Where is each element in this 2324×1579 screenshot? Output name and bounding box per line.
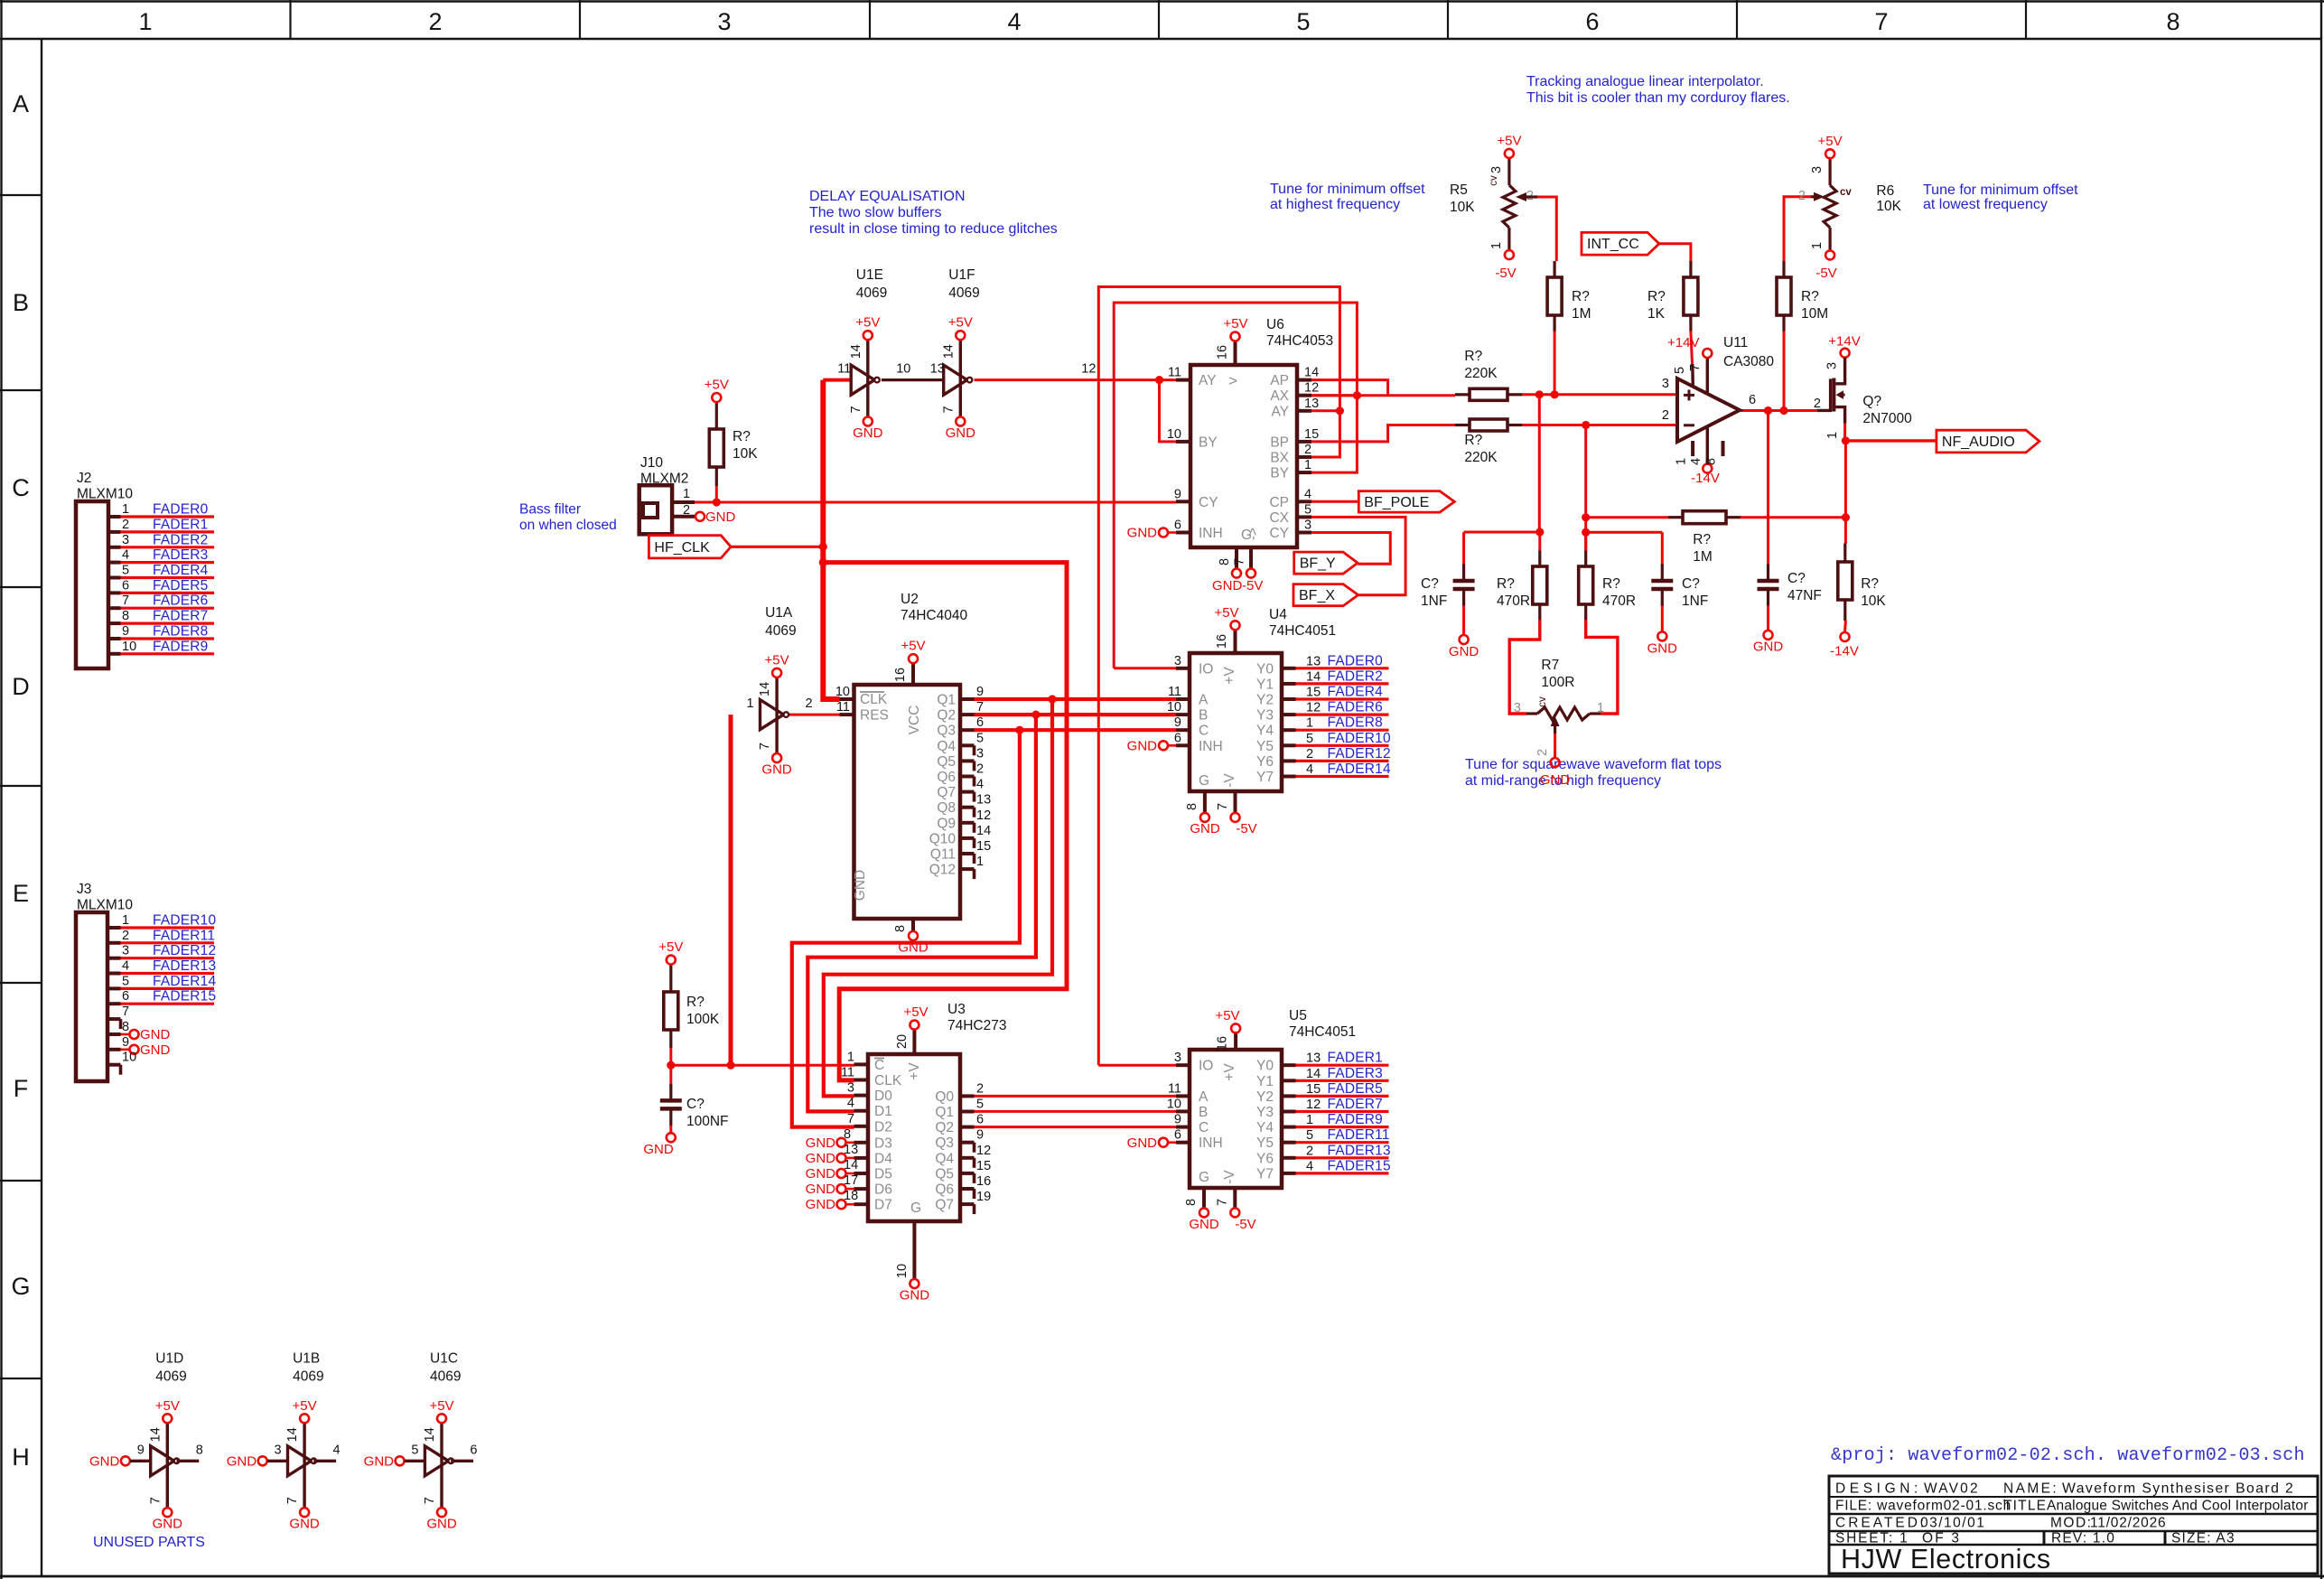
wire U2 Q2 to U4 B and U3 D1: [807, 711, 1176, 1112]
svg-text:U1E: U1E: [856, 267, 883, 283]
resistor R? 100K: [658, 939, 720, 1065]
svg-text:FADER8: FADER8: [153, 624, 209, 640]
svg-text:GND: GND: [643, 1142, 674, 1157]
svg-text:10: 10: [1167, 700, 1181, 715]
svg-text:2: 2: [1304, 443, 1311, 457]
svg-text:+14V: +14V: [1667, 335, 1699, 350]
svg-text:3: 3: [122, 944, 129, 958]
svg-text:Y2: Y2: [1256, 693, 1274, 708]
svg-text:4: 4: [1304, 487, 1311, 501]
svg-text:15: 15: [976, 1159, 991, 1173]
svg-text:8: 8: [1184, 1199, 1199, 1206]
svg-text:-5V: -5V: [1815, 266, 1836, 281]
svg-text:9: 9: [137, 1443, 145, 1457]
svg-text:AY: AY: [1271, 404, 1289, 419]
svg-text:Waveform Synthesiser Board 2: Waveform Synthesiser Board 2: [2062, 1481, 2294, 1497]
svg-text:2: 2: [1306, 747, 1313, 761]
svg-text:16: 16: [976, 1174, 991, 1189]
svg-text:FADER10: FADER10: [1328, 731, 1391, 746]
wire R470R-1 to R7 pin3: [1509, 619, 1540, 714]
svg-text:INH: INH: [1199, 526, 1223, 541]
connector J2 MLXM10 with FADER0-FADER9 nets: [76, 471, 214, 668]
wire U11 output to Q gate: [1740, 406, 1818, 415]
svg-text:GND: GND: [1753, 640, 1784, 655]
svg-text:Q3: Q3: [935, 1135, 954, 1151]
svg-text:-14V: -14V: [1830, 644, 1859, 659]
svg-text:UNUSED PARTS: UNUSED PARTS: [93, 1535, 205, 1550]
svg-text:7: 7: [758, 743, 772, 750]
svg-text:GND: GND: [806, 1166, 836, 1182]
svg-text:Y3: Y3: [1256, 1105, 1274, 1120]
wire U2 Q3 to U4 C and U3 D2: [792, 726, 1176, 1127]
wire R/C junction to U3 C-bar pin1: [667, 1061, 854, 1070]
svg-text:1: 1: [1810, 242, 1825, 249]
wire U6 CX to BF_X: [1311, 517, 1405, 594]
svg-text:C: C: [1199, 724, 1209, 739]
svg-text:Y4: Y4: [1256, 1120, 1274, 1135]
svg-text:Y0: Y0: [1256, 661, 1274, 677]
wire filter row to R470R-2 and C1NF-2: [1586, 532, 1663, 565]
svg-text:1: 1: [122, 913, 129, 928]
svg-text:INT_CC: INT_CC: [1587, 237, 1639, 252]
wire +input junction down to filter: [1538, 395, 1541, 533]
capacitor C? 100NF: [643, 1084, 728, 1157]
svg-text:Y0: Y0: [1256, 1059, 1274, 1074]
svg-text:Q2: Q2: [935, 1120, 954, 1135]
svg-text:Q1: Q1: [937, 693, 956, 708]
svg-text:FADER2: FADER2: [153, 532, 209, 547]
svg-text:FADER15: FADER15: [153, 989, 216, 1004]
svg-text:Y5: Y5: [1256, 1135, 1274, 1151]
svg-text:12: 12: [1081, 362, 1096, 377]
net flag BF_POLE: [1358, 491, 1454, 513]
svg-text:FADER10: FADER10: [153, 913, 216, 929]
wire U1A output to U2 RES: [789, 714, 840, 716]
potentiometer R5 10K: [1450, 133, 1537, 281]
svg-text:>: >: [1228, 372, 1237, 389]
svg-text:+5V: +5V: [948, 315, 973, 331]
svg-text:74HC4040: 74HC4040: [901, 608, 967, 623]
svg-text:13: 13: [1306, 1051, 1321, 1066]
svg-text:10K: 10K: [1450, 200, 1475, 215]
svg-text:+5V: +5V: [293, 1398, 317, 1414]
svg-text:FADER0: FADER0: [1328, 653, 1384, 668]
svg-text:GND: GND: [1212, 578, 1243, 593]
svg-text:6: 6: [976, 1113, 984, 1127]
wire C 47NF to GND: [1767, 604, 1769, 631]
svg-text:100R: 100R: [1541, 675, 1574, 690]
wire U6 AP/AX to R 220K (+input): [1311, 380, 1455, 396]
svg-text:9: 9: [122, 1035, 129, 1050]
svg-text:4069: 4069: [948, 285, 979, 301]
svg-text:6: 6: [122, 578, 129, 593]
svg-text:4: 4: [1689, 458, 1703, 465]
svg-text:7: 7: [1233, 558, 1247, 565]
svg-text:Q2: Q2: [937, 708, 956, 724]
connector J3 MLXM10 with FADER10-FADER15 nets and GND pins: [76, 882, 216, 1081]
svg-text:BF_Y: BF_Y: [1300, 556, 1336, 572]
svg-text:10: 10: [896, 362, 910, 377]
svg-text:7: 7: [148, 1497, 163, 1504]
svg-text:D0: D0: [874, 1088, 892, 1104]
svg-text:FADER12: FADER12: [1328, 746, 1391, 761]
svg-text:4069: 4069: [430, 1369, 461, 1384]
svg-text:IO: IO: [1199, 1059, 1213, 1074]
svg-text:Y1: Y1: [1256, 1074, 1274, 1089]
svg-text:DESIGN:: DESIGN:: [1835, 1481, 1922, 1497]
svg-text:5: 5: [976, 731, 984, 745]
svg-text:Q12: Q12: [929, 863, 956, 878]
resistor R? 1K: [1647, 261, 1698, 332]
svg-text:INH: INH: [1199, 1135, 1223, 1151]
svg-text:FADER11: FADER11: [1328, 1127, 1390, 1143]
svg-text:CX: CX: [1269, 510, 1289, 526]
svg-text:+5V: +5V: [155, 1398, 180, 1414]
svg-text:17: 17: [844, 1173, 858, 1188]
svg-text:WAV02: WAV02: [1924, 1481, 1980, 1497]
svg-text:FADER11: FADER11: [153, 928, 215, 943]
svg-text:14: 14: [1306, 1067, 1321, 1081]
svg-text:D6: D6: [874, 1182, 892, 1198]
svg-text:NAME:: NAME:: [2003, 1481, 2058, 1497]
svg-text:AX: AX: [1270, 388, 1289, 404]
wire J10.1 / R pull-up to U6 CY pin9: [695, 498, 1176, 506]
svg-text:9: 9: [1174, 1113, 1181, 1127]
svg-text:C?: C?: [1421, 576, 1439, 592]
svg-text:+5V: +5V: [765, 652, 789, 668]
svg-text:7: 7: [1688, 364, 1703, 371]
svg-text:14: 14: [423, 1427, 437, 1442]
svg-text:4069: 4069: [293, 1369, 323, 1384]
svg-text:3: 3: [976, 746, 984, 761]
svg-text:FADER3: FADER3: [153, 547, 209, 563]
svg-text:11: 11: [836, 700, 850, 715]
svg-text:FADER1: FADER1: [1328, 1051, 1384, 1066]
svg-text:+5V: +5V: [1223, 316, 1247, 332]
svg-text:12: 12: [1304, 381, 1319, 396]
svg-text:8: 8: [1218, 558, 1232, 565]
svg-text:GND: GND: [806, 1135, 836, 1151]
svg-text:AP: AP: [1270, 373, 1289, 388]
svg-text:13: 13: [844, 1143, 858, 1157]
svg-text:CLK: CLK: [874, 1073, 902, 1088]
svg-text:10M: 10M: [1801, 306, 1828, 322]
svg-text:BF_POLE: BF_POLE: [1364, 495, 1429, 510]
svg-text:14: 14: [148, 1427, 163, 1442]
net flag INT_CC: [1582, 232, 1659, 255]
svg-text:8: 8: [893, 925, 908, 932]
svg-text:7: 7: [941, 406, 956, 413]
svg-text:1: 1: [1306, 1113, 1313, 1127]
svg-text:4069: 4069: [856, 285, 887, 301]
svg-text:14: 14: [849, 344, 863, 359]
svg-text:11: 11: [1168, 685, 1181, 699]
svg-text:D2: D2: [874, 1119, 892, 1135]
wire R 1M to +input row: [1554, 332, 1556, 395]
svg-text:FADER5: FADER5: [1328, 1081, 1384, 1097]
svg-text:4: 4: [847, 1097, 854, 1111]
comment unused parts: [93, 1535, 205, 1550]
svg-text:J2: J2: [77, 471, 91, 486]
svg-text:Y6: Y6: [1256, 1151, 1274, 1166]
svg-text:U2: U2: [901, 592, 919, 607]
svg-text:D7: D7: [874, 1198, 892, 1213]
resistor R? 1M vertical: [1547, 261, 1591, 332]
wire -input row R220K to U11 pin2: [1522, 421, 1677, 429]
svg-text:1: 1: [847, 1050, 854, 1064]
svg-text:3: 3: [1174, 1051, 1181, 1065]
svg-text:U5: U5: [1289, 1008, 1307, 1023]
svg-text:GND: GND: [806, 1182, 836, 1197]
svg-text:74HC4053: 74HC4053: [1266, 333, 1333, 349]
svg-text:FADER6: FADER6: [1328, 700, 1384, 715]
unused inverter U1B 4069: [227, 1350, 341, 1531]
svg-text:11: 11: [841, 1066, 854, 1080]
svg-text:GND: GND: [853, 425, 883, 441]
svg-text:GND: GND: [1127, 1135, 1158, 1151]
svg-text:MLXM10: MLXM10: [77, 487, 133, 502]
svg-text:GND: GND: [140, 1027, 171, 1042]
svg-text:12: 12: [1306, 1098, 1321, 1112]
svg-text:6: 6: [976, 715, 984, 730]
svg-text:Q0: Q0: [935, 1089, 954, 1105]
svg-text:U6: U6: [1266, 317, 1284, 332]
analog mux U5 74HC4051: [1127, 1008, 1391, 1232]
svg-text:FADER0: FADER0: [153, 502, 209, 518]
svg-text:C: C: [1199, 1120, 1209, 1135]
svg-text:3: 3: [1514, 701, 1521, 715]
svg-text:GND: GND: [153, 1517, 183, 1532]
svg-text:D3: D3: [874, 1135, 892, 1151]
svg-text:10: 10: [122, 1051, 136, 1065]
svg-text:Q10: Q10: [929, 831, 957, 846]
svg-text:GND: GND: [946, 425, 976, 441]
svg-text:F: F: [14, 1075, 29, 1102]
svg-text:2: 2: [428, 8, 442, 35]
svg-text:Bass filter: Bass filter: [519, 502, 581, 518]
wire U1E output to U1F input: [882, 378, 944, 381]
resistor R? 470R left: [1497, 550, 1547, 620]
svg-text:1: 1: [1306, 716, 1313, 731]
svg-text:B: B: [1199, 1105, 1208, 1120]
wire R 1K to U11 pin5: [1691, 332, 1693, 365]
wire U3 Q1 to U5 B: [975, 1110, 1177, 1113]
wire U1E input from HF_CLK column: [823, 378, 851, 382]
svg-text:7: 7: [847, 1112, 854, 1126]
comment tune lowest frequency: [1923, 182, 2078, 212]
svg-text:Q1: Q1: [935, 1105, 954, 1120]
svg-text:+V: +V: [907, 1062, 922, 1080]
svg-text:7: 7: [1216, 803, 1230, 810]
svg-text:5: 5: [976, 1098, 984, 1112]
svg-text:8: 8: [2166, 8, 2179, 35]
net flag BF_Y: [1294, 552, 1358, 574]
comment tracking interpolator: [1526, 74, 1790, 106]
svg-text:11: 11: [837, 362, 851, 377]
svg-text:CY: CY: [1199, 495, 1218, 510]
svg-text:Analogue Switches And Cool Int: Analogue Switches And Cool Interpolator: [2047, 1499, 2309, 1514]
wire R5 wiper to R 1M: [1537, 197, 1556, 261]
svg-text:FADER3: FADER3: [1328, 1066, 1384, 1081]
title block: [1829, 1476, 2318, 1574]
svg-text:+5V: +5V: [1214, 605, 1238, 621]
comment tune squarewave: [1465, 757, 1722, 789]
svg-text:Y7: Y7: [1256, 770, 1274, 785]
svg-text:U1B: U1B: [293, 1350, 320, 1366]
svg-text:1: 1: [1825, 432, 1840, 439]
wire R 10K to -14V: [1843, 621, 1847, 632]
svg-text:2: 2: [122, 929, 129, 943]
svg-text:10: 10: [1167, 1097, 1181, 1111]
wire R7 wiper to GND: [1554, 733, 1556, 758]
svg-text:14: 14: [1306, 669, 1321, 684]
potentiometer R6 10K: [1798, 134, 1902, 281]
svg-text:1NF: 1NF: [1421, 593, 1447, 609]
svg-text:1: 1: [1489, 242, 1504, 249]
svg-text:8: 8: [122, 609, 129, 623]
svg-text:GND: GND: [1127, 526, 1158, 541]
svg-text:12: 12: [1306, 701, 1321, 715]
svg-text:FADER8: FADER8: [1328, 715, 1384, 731]
svg-text:G: G: [11, 1273, 30, 1300]
svg-text:+5V: +5V: [855, 315, 880, 331]
comment tune highest frequency: [1270, 182, 1425, 212]
svg-text:GND: GND: [853, 870, 868, 901]
svg-text:47NF: 47NF: [1787, 588, 1822, 603]
svg-text:MLXM2: MLXM2: [640, 472, 688, 487]
svg-text:4: 4: [1306, 1159, 1313, 1173]
svg-text:1: 1: [1597, 701, 1604, 715]
svg-text:4: 4: [333, 1443, 341, 1457]
wire R470R-2 to R7 pin1: [1586, 619, 1618, 714]
svg-text:Q5: Q5: [935, 1166, 954, 1182]
svg-text:R7: R7: [1541, 658, 1559, 673]
svg-text:8: 8: [196, 1443, 203, 1457]
svg-text:6: 6: [1174, 519, 1181, 533]
svg-text:D1: D1: [874, 1104, 892, 1119]
svg-text:74HC4051: 74HC4051: [1269, 623, 1336, 639]
svg-text:470R: 470R: [1497, 593, 1530, 609]
svg-text:15: 15: [1306, 686, 1321, 700]
svg-text:8: 8: [122, 1020, 129, 1034]
svg-text:74HC4051: 74HC4051: [1289, 1024, 1356, 1040]
svg-text:Tune for squarewave waveform f: Tune for squarewave waveform flat tops: [1465, 757, 1722, 772]
svg-text:+14V: +14V: [1828, 334, 1860, 350]
svg-text:+5V: +5V: [903, 1004, 928, 1020]
svg-text:at highest frequency: at highest frequency: [1270, 197, 1400, 212]
inverter U1E 4069: [837, 267, 910, 441]
svg-text:Q11: Q11: [930, 847, 956, 863]
svg-text:U1C: U1C: [430, 1350, 458, 1366]
svg-text:6: 6: [1585, 8, 1599, 35]
svg-text:SIZE: A3: SIZE: A3: [2171, 1531, 2235, 1546]
svg-text:9: 9: [1174, 487, 1181, 501]
svg-text:10: 10: [1167, 427, 1181, 442]
svg-text:G: G: [1199, 773, 1209, 789]
svg-text:12: 12: [976, 1144, 991, 1158]
svg-text:BF_X: BF_X: [1299, 588, 1335, 603]
svg-text:1: 1: [747, 696, 754, 711]
svg-text:1NF: 1NF: [1682, 593, 1708, 609]
svg-text:3: 3: [1174, 654, 1181, 668]
svg-text:7: 7: [122, 593, 129, 608]
svg-text:14: 14: [844, 1158, 858, 1173]
net flag NF_AUDIO: [1937, 430, 2039, 453]
svg-text:R?: R?: [686, 995, 705, 1010]
resistor R? 470R right: [1579, 550, 1636, 620]
svg-text:2: 2: [976, 1081, 984, 1096]
svg-text:7: 7: [423, 1497, 437, 1504]
svg-text:AY: AY: [1199, 373, 1217, 388]
svg-text:1: 1: [1675, 458, 1689, 465]
capacitor C? 47NF: [1753, 565, 1822, 655]
svg-text:4: 4: [1306, 762, 1313, 777]
svg-text:CLK: CLK: [860, 692, 888, 707]
svg-text:-V: -V: [1222, 1170, 1237, 1184]
svg-text:+5V: +5V: [658, 939, 683, 955]
svg-text:FILE: waveform02-01.sch: FILE: waveform02-01.sch: [1835, 1499, 2011, 1514]
svg-text:IO: IO: [1199, 661, 1213, 677]
svg-text:GND: GND: [227, 1454, 257, 1470]
resistor R? 10K pull-up at J10: [705, 378, 758, 486]
svg-text:R?: R?: [733, 429, 751, 444]
svg-text:BP: BP: [1270, 434, 1289, 450]
svg-text:2: 2: [683, 503, 690, 518]
svg-text:A: A: [1199, 1089, 1209, 1105]
svg-text:+V: +V: [1222, 1063, 1237, 1081]
svg-text:3: 3: [1810, 166, 1825, 173]
svg-text:6: 6: [470, 1443, 477, 1457]
svg-text:Q9: Q9: [937, 816, 956, 831]
svg-text:FADER9: FADER9: [1328, 1112, 1384, 1127]
svg-text:100NF: 100NF: [686, 1114, 729, 1129]
wire U1A input from C/R junction: [729, 715, 733, 1065]
svg-text:Q6: Q6: [937, 770, 956, 785]
svg-text:GND: GND: [900, 1288, 930, 1303]
net flag HF_CLK: [649, 536, 731, 558]
svg-text:Q4: Q4: [937, 739, 956, 754]
svg-text:3: 3: [1662, 377, 1669, 391]
svg-text:6: 6: [1174, 1128, 1181, 1143]
wire U6 CY to BF_Y: [1311, 533, 1390, 565]
wire C1NF-2 to GND: [1661, 604, 1664, 632]
latch U3 74HC273: [806, 1002, 1007, 1303]
svg-text:GND: GND: [364, 1454, 395, 1470]
svg-text:13: 13: [976, 793, 991, 808]
svg-text:FADER12: FADER12: [153, 943, 216, 958]
svg-text:C?: C?: [1682, 576, 1700, 592]
svg-text:Q8: Q8: [937, 800, 956, 816]
svg-text:FADER6: FADER6: [153, 593, 209, 609]
svg-text:12: 12: [976, 808, 991, 823]
svg-text:DELAY EQUALISATION: DELAY EQUALISATION: [809, 189, 966, 204]
analog mux U4 74HC4051: [1127, 605, 1391, 836]
svg-text:U4: U4: [1269, 607, 1287, 622]
comment delay equalisation: [809, 189, 1058, 237]
svg-text:-V: -V: [1222, 773, 1237, 788]
svg-text:8: 8: [1185, 803, 1199, 810]
svg-text:C: C: [12, 474, 30, 501]
svg-text:14: 14: [1304, 366, 1319, 380]
svg-text:-5V: -5V: [1235, 1217, 1255, 1232]
wire net HF_CLK (flag to U1E input, U2 CLK, U3 CLK staircase): [731, 380, 1067, 1080]
svg-text:7: 7: [122, 1004, 129, 1019]
resistor R? 10K output: [1830, 544, 1886, 659]
svg-text:74HC273: 74HC273: [947, 1018, 1007, 1033]
svg-text:9: 9: [1174, 715, 1181, 730]
resistor R? 220K upper: [1455, 349, 1522, 400]
svg-text:FADER14: FADER14: [153, 974, 216, 989]
